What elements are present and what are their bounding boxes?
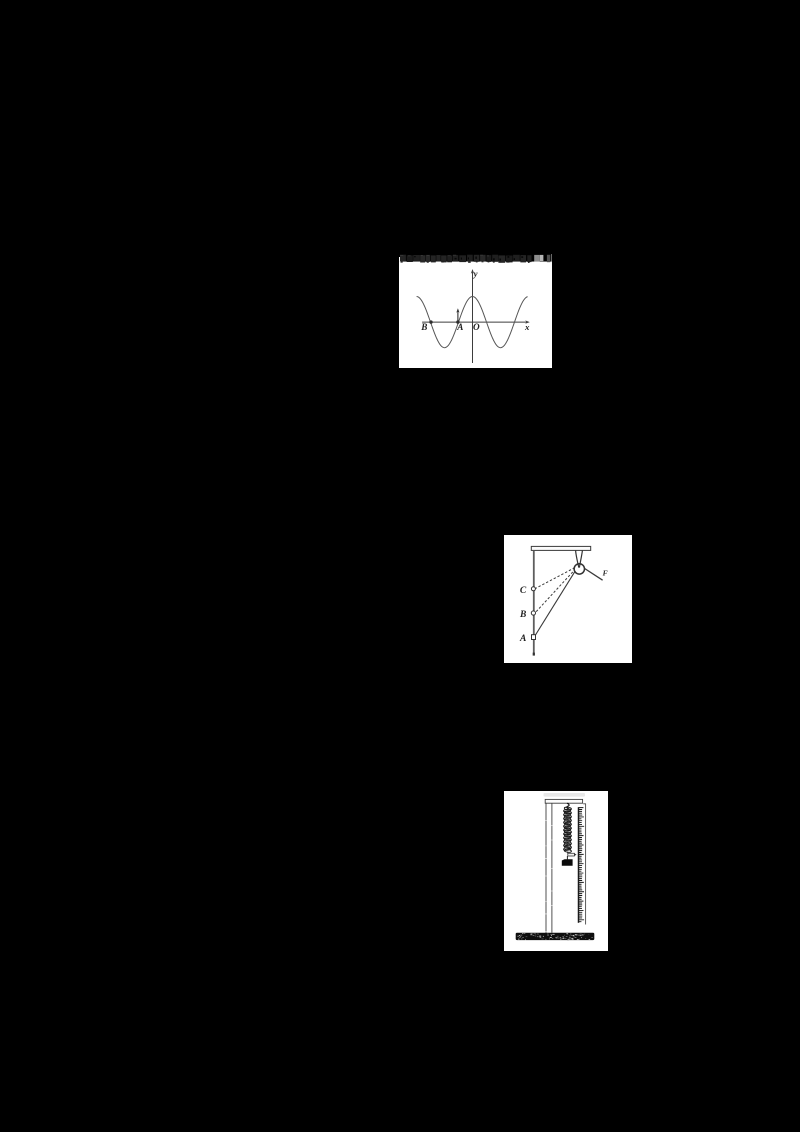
arrow at A (upward): [457, 311, 459, 321]
x-axis: [422, 321, 527, 323]
dashed line pulley to C: [535, 565, 578, 588]
pulley hanger hook: [575, 550, 578, 567]
force line F: [580, 566, 602, 580]
ceiling bar: [531, 546, 590, 550]
figure 2: pulley and rod panel: [504, 535, 632, 664]
wave curve: [417, 296, 528, 347]
figure 1: wave graph panel: [399, 254, 552, 368]
wire below spring: [567, 852, 569, 854]
ruler tick marks: [579, 808, 585, 922]
left pole line 1: [545, 803, 547, 933]
crushed glyph row: [400, 254, 406, 260]
caption band (crushed dark text): [399, 254, 552, 262]
dashed line pulley to B: [535, 565, 578, 612]
svg-text:A: A: [519, 633, 526, 643]
svg-text:x: x: [524, 322, 530, 332]
svg-text:B: B: [421, 321, 428, 331]
point A dot: [457, 320, 460, 323]
solid line pulley to A: [534, 565, 578, 635]
svg-text:O: O: [473, 321, 480, 331]
figure 3: spring stand panel: [504, 791, 608, 951]
spring top hook: [567, 803, 569, 808]
ruler left edge with ticks: [578, 807, 580, 923]
ruler right edge: [583, 804, 585, 925]
svg-text:y: y: [473, 268, 478, 278]
dark gray square far right of band: [547, 254, 550, 261]
svg-text:C: C: [519, 585, 526, 595]
base speckle texture: [572, 934, 574, 937]
top clamp bar: [545, 799, 582, 803]
svg-text:B: B: [519, 609, 526, 619]
base (hatched): [516, 933, 595, 940]
weight block: [562, 859, 573, 866]
wire to weight: [566, 856, 568, 859]
svg-text:A: A: [457, 321, 464, 331]
left pole line 2: [551, 803, 553, 933]
light smudge above bar: [544, 793, 586, 797]
point B (circle on rod): [531, 610, 535, 614]
pulley wheel: [574, 563, 584, 573]
point C (circle on rod): [531, 586, 535, 590]
point B dot: [430, 320, 433, 323]
vertical rod: [532, 550, 534, 655]
spring coils: [564, 807, 572, 811]
y-axis: [472, 271, 474, 363]
light gray block right end of band: [535, 254, 541, 261]
point A (square on rod): [531, 634, 535, 639]
svg-text:F: F: [602, 568, 607, 577]
pointer arm: [568, 853, 575, 856]
